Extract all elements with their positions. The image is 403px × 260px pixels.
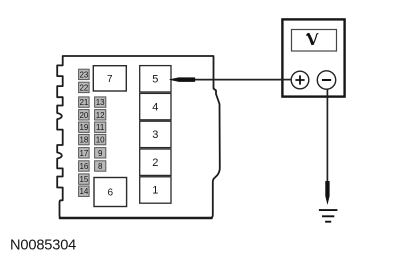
pin 20 [79,110,90,120]
svg-text:7: 7 [107,74,113,85]
svg-text:2: 2 [152,157,158,169]
svg-text:6: 6 [108,188,114,199]
wire: voltmeter positive lead [194,79,291,81]
wire: voltmeter negative lead [326,89,328,182]
pin 15 [79,174,90,184]
voltmeter V label [307,33,319,45]
pin 23 [79,69,90,79]
voltmeter body [282,19,344,96]
pin 5 [140,66,171,96]
connector bottom edge (thick) [60,217,212,220]
pin 22 [79,82,90,92]
svg-text:13: 13 [96,98,105,107]
svg-text:9: 9 [98,149,103,158]
cavity 6 [94,178,127,207]
negative probe body [325,181,329,205]
pin 18 [79,134,90,144]
wire: positive lead through meter wall [282,79,292,81]
pin 14 [79,186,90,196]
pin 4 [140,93,171,123]
svg-text:10: 10 [96,136,105,145]
svg-text:1: 1 [152,185,158,197]
svg-text:15: 15 [79,175,88,184]
probe tip arrow into pin 5 [170,78,195,82]
svg-text:19: 19 [79,123,88,132]
svg-text:22: 22 [79,83,88,92]
svg-text:23: 23 [79,70,88,79]
svg-text:17: 17 [79,149,88,158]
svg-text:20: 20 [79,111,88,120]
pin 17 [79,148,90,158]
svg-text:5: 5 [152,74,158,86]
pin 21 [79,97,90,107]
ground symbol [319,210,338,222]
svg-text:11: 11 [96,123,105,132]
svg-text:N0085304: N0085304 [10,237,76,253]
svg-text:12: 12 [96,111,105,120]
pin 3 [140,121,171,151]
pin 16 [79,161,90,171]
pin 9 [95,148,106,158]
svg-text:8: 8 [98,162,103,171]
pin 1 [140,177,171,203]
pin 8 [95,161,106,171]
svg-text:18: 18 [79,136,88,145]
pin 10 [95,134,106,144]
svg-text:16: 16 [79,162,88,171]
voltmeter negative terminal [317,71,335,89]
cavity 7 [93,66,126,91]
voltmeter display window [292,30,337,52]
svg-text:4: 4 [152,101,158,113]
pin 19 [79,122,90,132]
pin 13 [95,97,106,107]
pin 11 [95,122,106,132]
svg-text:21: 21 [79,98,88,107]
pin 12 [95,110,106,120]
connector J1 body outline [57,56,220,218]
pin 2 [140,149,171,179]
svg-text:14: 14 [79,187,88,196]
svg-text:3: 3 [152,129,158,141]
voltmeter positive terminal [291,71,309,89]
